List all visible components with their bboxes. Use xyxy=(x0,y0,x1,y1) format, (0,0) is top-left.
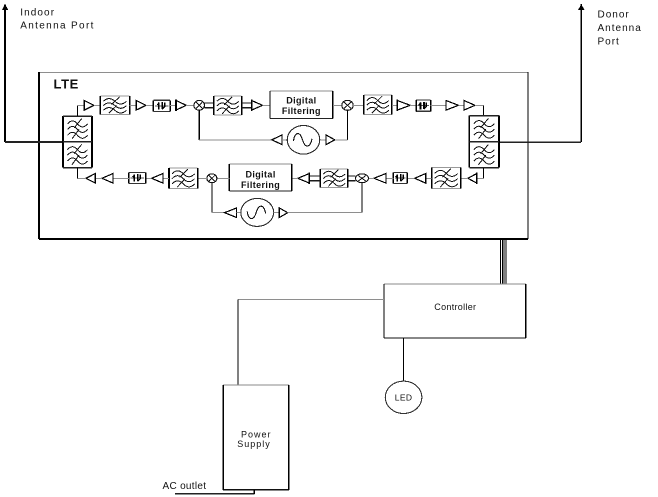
svg-text:Antenna: Antenna xyxy=(598,23,642,34)
svg-text:Donor: Donor xyxy=(598,9,630,20)
svg-text:LTE: LTE xyxy=(54,76,79,91)
svg-text:LED: LED xyxy=(395,393,413,403)
svg-text:AC outlet: AC outlet xyxy=(163,481,207,492)
svg-text:Filtering: Filtering xyxy=(241,180,280,190)
svg-text:Antenna Port: Antenna Port xyxy=(20,20,95,31)
svg-text:Digital: Digital xyxy=(245,169,275,179)
svg-text:Filtering: Filtering xyxy=(282,106,321,116)
svg-text:Port: Port xyxy=(598,37,620,48)
svg-text:Supply: Supply xyxy=(237,439,271,449)
svg-text:Controller: Controller xyxy=(434,302,476,312)
svg-text:Indoor: Indoor xyxy=(20,8,55,19)
svg-text:Digital: Digital xyxy=(286,96,316,106)
